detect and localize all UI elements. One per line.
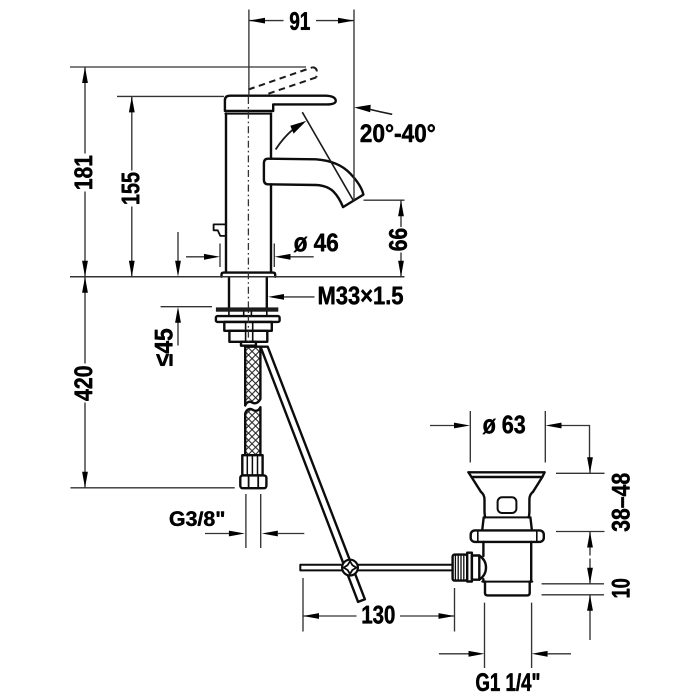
20-40 arrow head xyxy=(354,105,371,113)
10 reference lines xyxy=(542,584,604,595)
locknut step block xyxy=(224,322,271,331)
drain funnel cone xyxy=(472,477,543,492)
38-48 reference lines xyxy=(556,473,605,531)
38-48 arrow shafts xyxy=(589,458,591,556)
drain neck joint line xyxy=(484,516,531,518)
swivel arc arrow tail xyxy=(276,130,293,149)
label M33x1.5 xyxy=(319,286,403,304)
label G1 1/4 xyxy=(476,673,539,691)
arrow 155 top xyxy=(129,96,135,112)
faucet body right edge upper xyxy=(270,114,272,159)
arrow <=45 lower xyxy=(175,307,181,323)
arrow 155 bottom xyxy=(129,261,135,277)
hose ribbed fitting xyxy=(242,455,262,475)
20-40 arrow tail xyxy=(370,109,392,114)
tailpiece knurled knob xyxy=(453,555,468,581)
dim 91 line xyxy=(249,20,354,22)
o46 extension lines xyxy=(220,244,274,268)
swivel arc arrowhead xyxy=(290,121,306,134)
tailpiece cylinder xyxy=(472,556,479,580)
arrow M33 leader xyxy=(268,294,284,300)
label 91 xyxy=(290,12,310,30)
o46 arrow shafts xyxy=(186,256,314,258)
spout outline xyxy=(264,159,364,207)
arrow 91 right xyxy=(338,18,354,24)
drain neck window xyxy=(498,497,517,513)
label 181 xyxy=(74,156,92,189)
arrow 66 top xyxy=(398,200,404,216)
arrow G3/8 right xyxy=(262,531,278,537)
lever raised position dashes xyxy=(248,67,312,89)
pivot star xyxy=(344,561,357,574)
M33 leader line xyxy=(284,296,315,298)
drain flange xyxy=(471,530,544,542)
drain lower neck xyxy=(482,517,532,530)
91 extension left xyxy=(248,10,250,96)
arrow 10 top xyxy=(587,568,593,584)
o63 extension lines xyxy=(470,411,545,463)
locknut lower block xyxy=(229,331,267,342)
arrow 181 bottom xyxy=(82,261,88,277)
horizontal actuating rod xyxy=(300,565,452,571)
flex hose lower segment xyxy=(245,407,260,455)
label G3/8 xyxy=(170,511,224,526)
rod pivot joint xyxy=(342,560,358,576)
clamp range lower reference xyxy=(161,306,212,308)
arrow o63 left xyxy=(454,423,470,429)
lever handle (side view, horizontal position) xyxy=(225,96,336,111)
arrow 420 bottom xyxy=(82,472,88,488)
arrow 91 left xyxy=(249,18,265,24)
130 extension lines xyxy=(303,578,455,632)
tailpiece bulge xyxy=(479,556,486,580)
155 reference line xyxy=(117,95,224,97)
label 420 xyxy=(74,366,92,400)
dim 155 line xyxy=(131,96,133,276)
G1 1/4 extension lines xyxy=(485,603,532,668)
label o63 xyxy=(483,415,525,434)
arrow 130 left xyxy=(303,613,319,619)
arrow 181 top xyxy=(82,67,88,83)
arrow o46 right xyxy=(275,254,291,260)
mounting washer (dark) xyxy=(216,307,278,311)
label 155 xyxy=(122,173,140,204)
tailpiece ring xyxy=(467,553,472,582)
faucet centerline xyxy=(247,97,249,342)
dim 181 line xyxy=(84,67,86,277)
locknut flange xyxy=(216,316,280,322)
aerator key hook on body xyxy=(214,224,226,236)
66 top reference xyxy=(364,199,405,201)
faucet body right edge lower xyxy=(270,184,272,272)
spout rotated position line xyxy=(302,112,354,201)
label <=45 xyxy=(155,329,173,366)
arrow 38-48 top xyxy=(587,457,593,473)
G1 1/4 arrow shafts xyxy=(439,653,571,655)
420 bottom reference xyxy=(71,487,235,489)
base flange at deck xyxy=(222,273,276,277)
top reference line (lever top) xyxy=(70,66,306,68)
arrow <=45 upper xyxy=(175,261,181,277)
91 extension right xyxy=(353,10,355,201)
lift rod collar xyxy=(241,342,256,346)
flex hose upper segment xyxy=(245,347,260,406)
label 130 xyxy=(363,606,395,624)
lift rod channel xyxy=(246,322,253,342)
dim 130 line xyxy=(303,615,455,617)
arrow o63 right xyxy=(546,423,562,429)
deck line xyxy=(70,276,405,278)
G3/8 extension lines xyxy=(246,494,261,548)
arrow G1 1/4 left xyxy=(469,651,485,657)
label 38-48 xyxy=(612,474,630,532)
arrow 420 top xyxy=(82,277,88,293)
arrow 38-48 bottom xyxy=(587,532,593,548)
arrow 66 bottom xyxy=(398,261,404,277)
arrow G3/8 left xyxy=(229,531,245,537)
drain neck xyxy=(481,492,533,518)
dim 66 line xyxy=(400,200,402,277)
arrow 130 right xyxy=(439,613,455,619)
dim 420 line xyxy=(84,277,86,488)
arrow G1 1/4 right xyxy=(532,651,548,657)
shank below deck xyxy=(229,277,267,307)
o63 arrow shafts + jog xyxy=(430,426,590,459)
hose hex nut G3/8 xyxy=(240,475,266,488)
drain body xyxy=(483,542,531,582)
label 20-40 xyxy=(361,124,435,142)
drain rim top xyxy=(468,472,544,477)
G3/8 arrow shafts xyxy=(205,533,304,535)
washer-locknut ticks xyxy=(229,312,267,316)
pop-up rod (diagonal) xyxy=(261,347,365,602)
dim <=45 arrow shafts xyxy=(177,232,179,346)
label 66 xyxy=(389,229,407,251)
label 10 xyxy=(612,579,630,597)
body top seam band xyxy=(225,113,271,115)
arrow 10 bottom xyxy=(587,595,593,611)
arrow o46 left xyxy=(204,254,220,260)
label o46 xyxy=(294,233,338,252)
faucet body left edge xyxy=(225,114,227,273)
10 arrow shafts xyxy=(589,559,591,641)
